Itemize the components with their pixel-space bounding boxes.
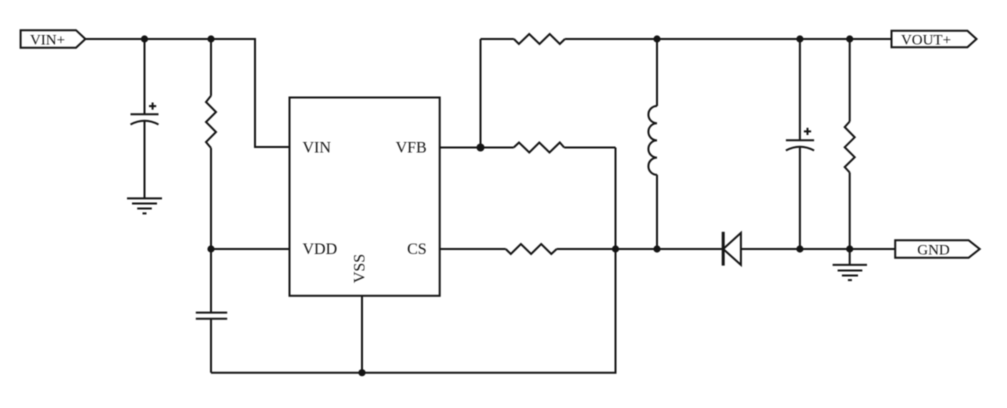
wire C2 top lead <box>210 249 212 313</box>
wire R1 top lead <box>210 39 212 96</box>
node junction VSS on bottom rail <box>358 369 365 376</box>
wire VFB node up to top <box>480 39 482 148</box>
node junction CS rail <box>612 245 619 252</box>
node junction inductor top <box>653 35 660 42</box>
svg-text:VOUT+: VOUT+ <box>901 32 951 48</box>
wire inductor bottom lead <box>656 175 658 249</box>
resistor R4 horizontal CS <box>506 244 557 254</box>
op-amp U1 box <box>290 98 440 296</box>
node junction R5 top <box>846 35 853 42</box>
port flag VOUT+ <box>892 31 977 49</box>
node junction C3 bottom <box>796 245 803 252</box>
wire R2 to L node <box>565 38 657 40</box>
svg-text:VIN+: VIN+ <box>30 32 65 48</box>
resistor R3 horizontal middle <box>514 143 565 153</box>
wire top-left from VIN+ to elbow <box>85 39 289 147</box>
wire to GND flag <box>850 248 896 250</box>
wire CS pin <box>440 248 506 250</box>
wire diode to C3 node <box>741 248 800 250</box>
wire VDD pin <box>211 248 290 250</box>
svg-text:GND: GND <box>917 242 950 258</box>
resistor R5 vertical right <box>845 122 855 173</box>
wire ground stub <box>849 249 851 265</box>
wire top-right rail <box>657 38 892 40</box>
svg-text:VDD: VDD <box>303 241 338 258</box>
wire R4 to CS node <box>557 248 616 250</box>
wire C3 top lead <box>799 39 801 140</box>
resistor R2 horizontal top <box>514 34 565 44</box>
node junction on top wire at C1 <box>141 35 148 42</box>
wire C2 bottom lead <box>210 319 212 373</box>
wire VFB node to R3 <box>481 147 514 149</box>
node junction C3 top <box>796 35 803 42</box>
wire R5 bottom lead <box>849 173 851 250</box>
svg-text:VFB: VFB <box>396 140 427 157</box>
node junction VFB <box>477 144 485 152</box>
wire VFB pin to node <box>440 147 481 149</box>
node junction VDD <box>207 245 214 252</box>
wire R1 bottom lead to VDD node <box>210 148 212 249</box>
wire C1 top lead <box>144 39 146 114</box>
node junction R5 bottom / ground <box>846 245 853 252</box>
wire bottom rail <box>211 148 616 373</box>
capacitor C3 polarized <box>786 128 814 151</box>
wire CS node to inductor node <box>616 248 658 250</box>
wire C3 bottom node to R5 node <box>800 248 850 250</box>
ground symbol left <box>127 198 162 213</box>
wire top to R2 <box>481 38 514 40</box>
wire C1 bottom lead <box>144 121 146 198</box>
wire R5 top lead <box>849 39 851 122</box>
resistor R1 vertical <box>206 96 216 148</box>
node junction inductor bottom <box>653 245 660 252</box>
wire C3 bottom lead <box>799 147 801 249</box>
svg-text:VIN: VIN <box>303 140 332 157</box>
ground symbol right <box>833 265 867 280</box>
wire inductor top lead <box>656 39 658 106</box>
svg-text:CS: CS <box>407 241 427 258</box>
svg-text:VSS: VSS <box>352 254 369 283</box>
inductor L1 <box>648 106 657 175</box>
capacitor C2 <box>196 313 227 319</box>
wire R3 to right vertical <box>564 147 615 149</box>
port flag VIN+ <box>21 30 86 48</box>
wire VSS pin <box>361 296 363 373</box>
port flag GND <box>895 240 980 258</box>
wire inductor bottom to diode <box>657 248 723 250</box>
capacitor C1 polarized <box>131 103 159 125</box>
node junction on top wire at R1 <box>207 35 214 42</box>
diode D1 <box>723 232 741 266</box>
